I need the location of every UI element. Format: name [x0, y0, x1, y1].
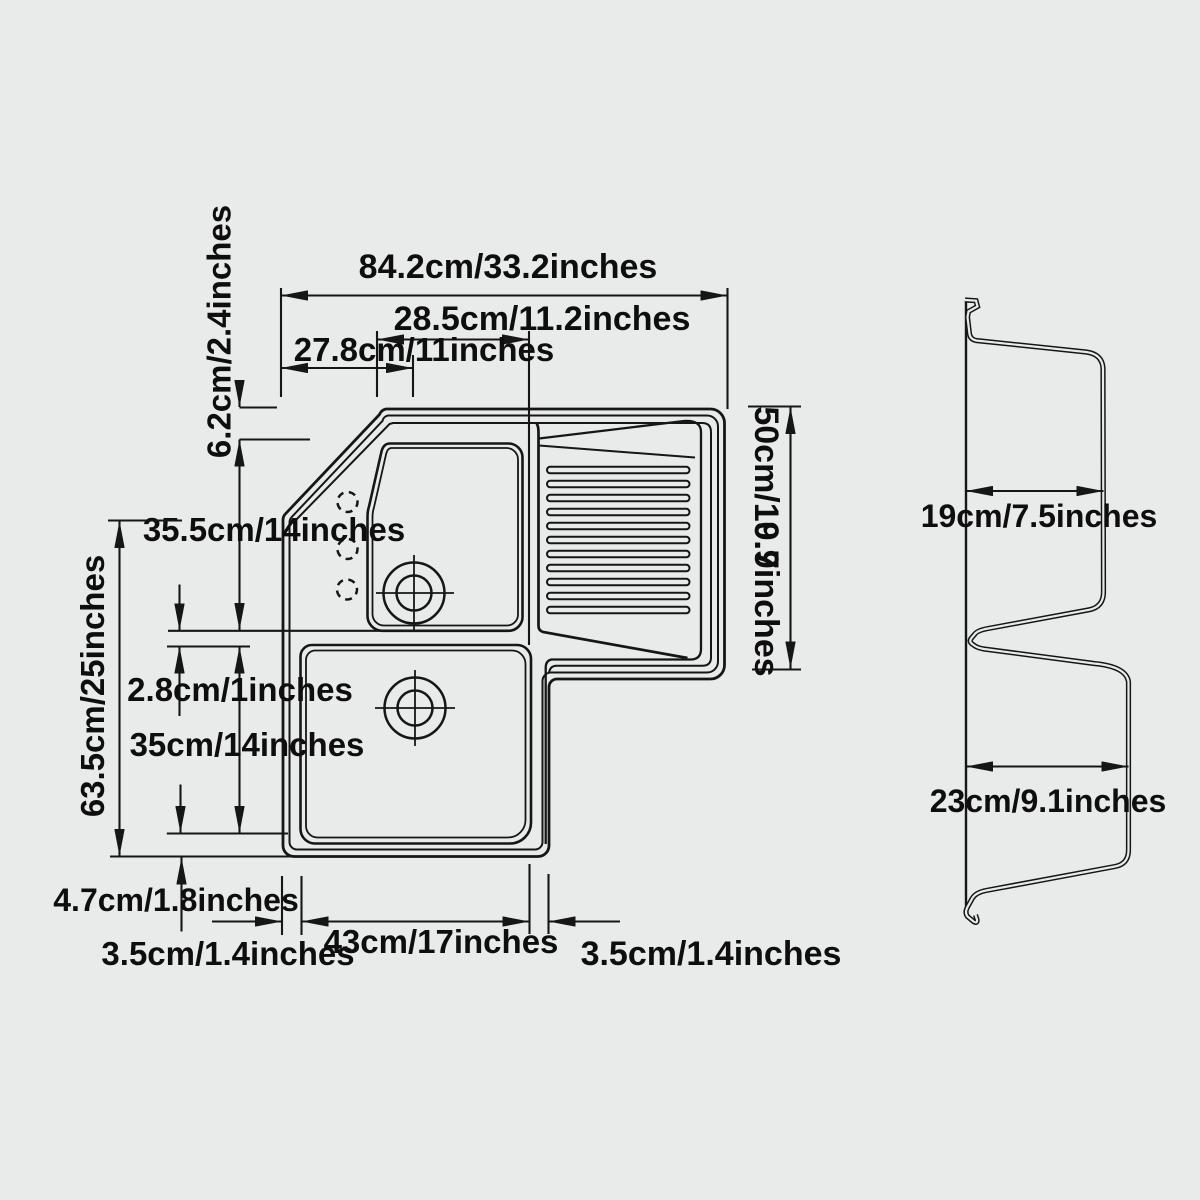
svg-text:63.5cm/25inches: 63.5cm/25inches	[74, 555, 111, 817]
drainboard ridge bar 10	[547, 593, 690, 600]
profile section outline	[965, 300, 1129, 922]
bottom tick a	[281, 876, 283, 935]
dim 28.5 line	[377, 338, 529, 340]
drainboard secondary crease	[539, 446, 695, 458]
svg-text:35.5cm/14inches: 35.5cm/14inches	[143, 511, 405, 548]
drainboard ridge bar 2	[547, 481, 690, 488]
dim 27.8 line	[281, 367, 413, 369]
svg-text:43cm/17inches: 43cm/17inches	[324, 923, 559, 960]
drainboard left edge and bottom crease	[537, 424, 688, 659]
bottom tick b	[300, 876, 302, 935]
dim 50 line	[789, 407, 791, 669]
lower drain inner circle	[398, 691, 433, 726]
dim 4.7 tick lower	[110, 855, 291, 857]
profile plane line	[965, 301, 967, 907]
dim 6.2 tick top	[240, 406, 278, 408]
drainboard ridge bar 5	[547, 523, 690, 530]
upper drain inner circle	[397, 576, 432, 611]
dim 4.7 tick upper	[167, 832, 288, 834]
dim 84.2 extension left	[280, 288, 282, 397]
drainboard ridge bar 9	[547, 579, 690, 586]
dim 19 line	[966, 490, 1104, 492]
svg-text:4.7cm/1.8inches: 4.7cm/1.8inches	[53, 882, 298, 918]
dim 35.5 line	[238, 440, 240, 631]
bottom tick d	[547, 874, 549, 934]
dim 23 line	[966, 765, 1129, 767]
dim 35 line	[238, 647, 240, 834]
faucet hole dashed circle 2	[338, 539, 358, 559]
svg-text:6.2cm/2.4inches: 6.2cm/2.4inches	[201, 205, 238, 458]
dim 6.2 tick bottom	[240, 438, 311, 440]
svg-text:3.5cm/1.4inches: 3.5cm/1.4inches	[101, 935, 354, 972]
dim 84.2 extension right	[726, 288, 728, 409]
svg-text:23cm/9.1inches: 23cm/9.1inches	[930, 783, 1167, 819]
drainboard ridge bar 11	[547, 607, 690, 614]
deck line	[293, 423, 712, 673]
drainboard ridge bar 8	[547, 565, 690, 572]
dim 2.8 tick upper	[168, 630, 385, 632]
drainboard ridge bar 6	[547, 537, 690, 544]
svg-text:84.2cm/33.2inches: 84.2cm/33.2inches	[359, 248, 658, 286]
dim 6.2 arrow top	[238, 381, 240, 407]
drainboard top crease, right edge, bottom edge	[539, 421, 701, 844]
svg-text:0.9: 0.9	[747, 521, 785, 568]
upper drain crosshair horizontal	[376, 592, 454, 594]
svg-text:35cm/14inches: 35cm/14inches	[130, 726, 365, 763]
profile section inner white	[965, 300, 1129, 922]
dim 50 tick bottom	[752, 668, 801, 670]
drainboard ridge bar 1	[547, 467, 690, 474]
upper bowl outer	[367, 443, 522, 630]
dim 84.2 line	[281, 294, 728, 296]
svg-text:3.5cm/1.4inches: 3.5cm/1.4inches	[581, 935, 842, 973]
dim 4.7 arrow bottom	[180, 858, 182, 932]
svg-text:2.8cm/1inches: 2.8cm/1inches	[127, 671, 353, 708]
upper bowl inner	[373, 448, 519, 626]
dim 3.5 right stub	[549, 920, 621, 922]
dim 63.5 line	[118, 521, 120, 856]
dim 2.8 arrow top	[178, 585, 180, 631]
dim 4.7 arrow top	[179, 785, 181, 834]
dim 3.5 left stub	[212, 920, 282, 922]
svg-text:19cm/7.5inches: 19cm/7.5inches	[921, 498, 1158, 534]
sink inner rim	[290, 416, 719, 850]
lower drain outer circle	[385, 678, 446, 739]
lower bowl outer	[301, 645, 532, 844]
dim 43 line	[302, 920, 530, 922]
faucet hole dashed circle 1	[338, 492, 358, 512]
dim 50 tick top	[748, 405, 801, 407]
dim 2.8 arrow bottom	[178, 647, 180, 717]
lower drain crosshair horizontal	[375, 707, 455, 709]
dim 63.5 tick top	[108, 519, 182, 521]
dim 28.5 extension left	[376, 331, 378, 397]
svg-text:27.8cm/11inches: 27.8cm/11inches	[294, 331, 555, 368]
dim 27.8 extension right	[412, 355, 414, 397]
dim 2.8 tick lower	[167, 645, 250, 647]
faucet hole dashed circle 3	[337, 580, 357, 600]
lower drain crosshair vertical	[414, 670, 416, 746]
sink outer rim	[283, 409, 725, 857]
bottom tick c	[528, 864, 530, 934]
upper drain outer circle	[384, 563, 445, 624]
upper drain crosshair vertical	[413, 555, 415, 630]
drainboard ridge bar 3	[547, 495, 690, 502]
drainboard ridge bar 7	[547, 551, 690, 558]
drainboard ridge bar 4	[547, 509, 690, 516]
dim 28.5 extension right	[528, 331, 530, 645]
lower bowl inner	[306, 651, 526, 838]
